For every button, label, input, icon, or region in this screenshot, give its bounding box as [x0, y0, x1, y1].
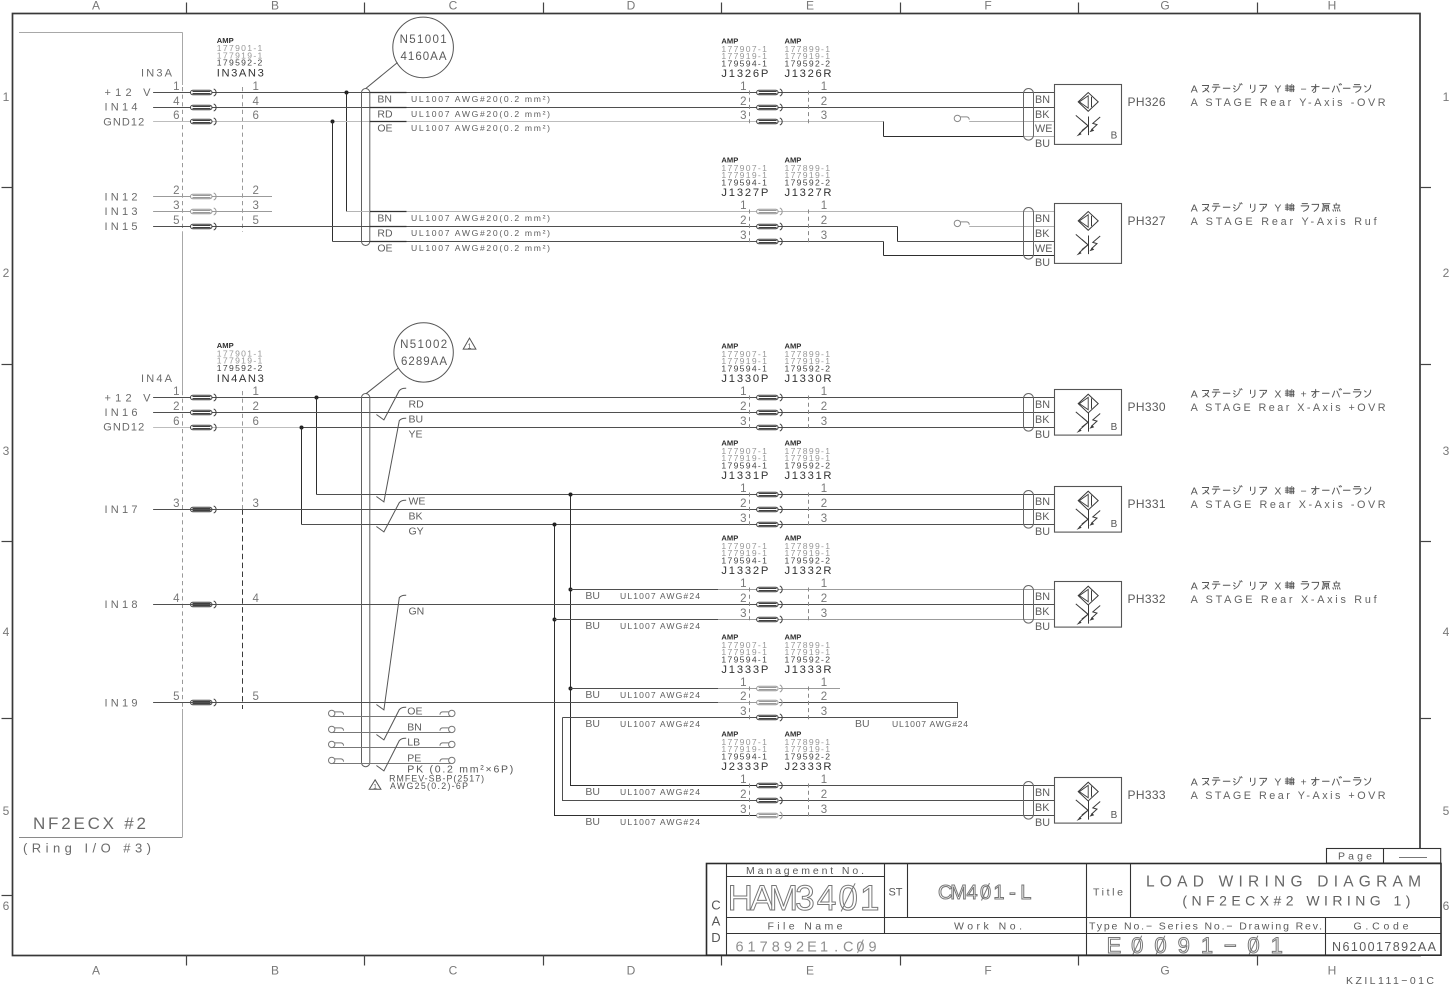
svg-text:179592-2: 179592-2 [785, 555, 831, 565]
svg-text:UL1007 AWG#20(0.2 mm²): UL1007 AWG#20(0.2 mm²) [411, 109, 550, 119]
svg-text:1: 1 [821, 774, 827, 786]
svg-text:BN: BN [1035, 591, 1050, 603]
wire IN16 row (J1330 pin2 BU) [153, 412, 1054, 414]
connector J1330 mating dashed lines [749, 396, 751, 430]
svg-text:UL1007 AWG#24: UL1007 AWG#24 [892, 719, 968, 729]
svg-text:RD: RD [377, 228, 393, 240]
balloon N51001 leader line [366, 63, 398, 89]
svg-text:UL1007 AWG#24: UL1007 AWG#24 [620, 817, 700, 827]
balloon N51002 6289AA [394, 323, 453, 382]
svg-text:RD: RD [409, 399, 425, 411]
svg-text:File Name: File Name [768, 921, 843, 933]
svg-text:E: E [1107, 933, 1122, 958]
svg-text:179592-2: 179592-2 [785, 654, 831, 664]
svg-text:PH331: PH331 [1128, 497, 1166, 511]
description (Japanese) [1191, 485, 1371, 497]
svg-text:3: 3 [821, 706, 827, 718]
svg-text:IN3A: IN3A [141, 68, 173, 80]
description (Japanese) [1191, 202, 1340, 214]
crimp IN4A pin1 [191, 394, 217, 401]
title block inner lines [726, 863, 728, 955]
svg-text:B: B [271, 0, 279, 13]
svg-text:Y: Y [1274, 202, 1281, 214]
svg-text:3: 3 [821, 608, 827, 620]
svg-text:1: 1 [1201, 933, 1213, 958]
wire J1333 pin1 row [571, 688, 719, 690]
svg-text:1: 1 [173, 386, 179, 398]
svg-text:BN: BN [1035, 399, 1050, 411]
svg-text:+: + [1301, 776, 1307, 788]
svg-text:1: 1 [740, 483, 746, 495]
svg-text:OE: OE [377, 123, 392, 135]
crimp J2333 pin2 [757, 797, 783, 804]
svg-text:WE: WE [1035, 243, 1052, 255]
svg-text:GND12: GND12 [103, 116, 144, 128]
svg-text:UL1007 AWG#20(0.2 mm²): UL1007 AWG#20(0.2 mm²) [411, 228, 550, 238]
svg-text:5: 5 [173, 215, 179, 227]
svg-text:J1332P: J1332P [721, 565, 768, 577]
svg-text:1: 1 [821, 386, 827, 398]
crimp J1326 pin2 [757, 104, 783, 111]
svg-text:6: 6 [1443, 899, 1450, 913]
management no. HAM3401 [728, 879, 880, 918]
cable N51002 sheath [362, 394, 370, 767]
svg-text:3: 3 [821, 110, 827, 122]
svg-text:2: 2 [173, 185, 179, 197]
svg-text:J1330R: J1330R [785, 373, 832, 385]
photo sensor PH326 receiver symbol [1088, 117, 1090, 136]
crimp J1326 pin1 [757, 89, 783, 96]
svg-text:NF2ECX #2: NF2ECX #2 [33, 814, 147, 833]
crimp IN3A pin6 [191, 118, 217, 125]
svg-text:UL1007 AWG#20(0.2 mm²): UL1007 AWG#20(0.2 mm²) [411, 123, 550, 133]
svg-text:1: 1 [740, 200, 746, 212]
svg-text:D: D [627, 0, 636, 13]
crimp J1330 pin1 [757, 394, 783, 401]
twisted pair marker GN/PK [376, 595, 406, 710]
revision triangle 1 (balloon) [463, 338, 476, 349]
crimp J1330 pin3 [757, 424, 783, 431]
svg-text:1: 1 [821, 200, 827, 212]
svg-text:3: 3 [253, 200, 259, 212]
svg-text:E: E [807, 940, 817, 956]
svg-text:1: 1 [373, 784, 377, 791]
svg-text:BU: BU [1035, 257, 1050, 269]
connector J1331 mating dashed lines [749, 493, 751, 527]
svg-text:2: 2 [740, 498, 746, 510]
connector J1327 mating dashed lines [749, 210, 751, 244]
svg-text:6: 6 [173, 110, 179, 122]
svg-text:BU: BU [585, 620, 600, 632]
svg-text:A: A [1191, 580, 1198, 592]
svg-text:Y: Y [1274, 83, 1281, 95]
svg-text:−: − [1301, 83, 1307, 95]
svg-text:X: X [1274, 485, 1281, 497]
svg-text:2: 2 [821, 691, 827, 703]
svg-text:BK: BK [1035, 228, 1050, 240]
svg-text:GY: GY [409, 526, 424, 538]
svg-text:H: H [1328, 0, 1337, 13]
svg-text:179594-1: 179594-1 [721, 363, 767, 373]
photo sensor PH330 body [1055, 390, 1122, 436]
svg-text:A: A [1191, 485, 1198, 497]
block boundary solid segments (left column) [182, 232, 184, 391]
svg-text:J1326P: J1326P [721, 68, 768, 80]
svg-text:BU: BU [585, 816, 600, 828]
svg-text:BN: BN [377, 213, 392, 225]
svg-text:IN4AN3: IN4AN3 [217, 373, 264, 385]
drawing number E0091-01 [1107, 933, 1283, 958]
junction +12V branch (mid) [315, 396, 319, 400]
connector column dashed line (left) [182, 87, 184, 232]
svg-text:A: A [1191, 388, 1198, 400]
crimp J1332 pin2 [757, 601, 783, 608]
svg-text:N51002: N51002 [400, 339, 447, 351]
wire J1333 pin2 loop-back jumper to pin3 [563, 703, 958, 718]
svg-text:Type No.− Series No.− Drawing: Type No.− Series No.− Drawing Rev. [1089, 921, 1322, 933]
svg-text:Y: Y [1274, 776, 1281, 788]
svg-text:1: 1 [1271, 933, 1283, 958]
svg-text:B: B [1111, 131, 1118, 142]
svg-text:BU: BU [1035, 817, 1050, 829]
svg-text:J1331R: J1331R [785, 470, 832, 482]
svg-text:179592-2: 179592-2 [785, 751, 831, 761]
svg-text:J2333P: J2333P [721, 761, 768, 773]
photo sensor PH331 emitter symbol [1078, 491, 1098, 510]
svg-text:WE: WE [1035, 123, 1052, 135]
wire label-zone dark segments (J1327 cable rows) [370, 211, 407, 213]
wire J2333 pin3 row to PH333 BU [779, 815, 1055, 817]
riser +12V to J1332/J1333/J2333 pin1 [571, 495, 757, 786]
work station CM401-L [938, 882, 1031, 904]
svg-text:AWG25(0.2)-6P: AWG25(0.2)-6P [390, 781, 468, 791]
svg-text:3: 3 [821, 513, 827, 525]
wire GND12 row (J1330 pin3 YE) [153, 427, 301, 429]
svg-text:3: 3 [740, 608, 746, 620]
riser GND to J1332/J2333 pin3 [555, 525, 757, 816]
svg-text:1: 1 [993, 882, 1004, 904]
wire J2333 pin1 row to PH333 BN [779, 785, 1055, 787]
svg-text:4: 4 [253, 96, 260, 108]
page number box [1327, 849, 1441, 864]
cut wire stub PH326 WE with coil [954, 115, 960, 121]
svg-text:BK: BK [1035, 414, 1050, 426]
svg-text:1: 1 [740, 81, 746, 93]
svg-text:IN4A: IN4A [141, 373, 173, 385]
photo sensor PH333 cable clamp [1024, 782, 1034, 820]
description (Japanese) [1191, 580, 1340, 592]
connector J1333 mating dashed lines [749, 687, 751, 720]
svg-text:H: H [728, 879, 753, 918]
svg-text:3: 3 [821, 804, 827, 816]
description (Japanese) [1191, 388, 1371, 400]
wire J1327 pin1 row (+12V branch) [347, 211, 1055, 213]
svg-text:X: X [1274, 388, 1281, 400]
svg-text:F: F [984, 0, 991, 13]
svg-text:1: 1 [253, 81, 259, 93]
svg-text:2: 2 [1443, 266, 1450, 280]
photo sensor PH330 emitter symbol [1078, 394, 1098, 413]
svg-text:179594-1: 179594-1 [721, 58, 767, 68]
crimp J2333 pin3 [757, 812, 783, 819]
wire step J1326 pin3 down to PH326 BU row [883, 122, 885, 137]
coiled spare wire BN [333, 732, 452, 734]
crimp IN3A pin4 [191, 104, 217, 111]
wire +12V row (IN3A pin1 to J1326 pin1 to PH326 BN) [153, 92, 1054, 94]
crimp IN18 pin4 [191, 601, 217, 608]
junction +12V branch [345, 91, 349, 95]
connector J1326 mating dashed lines [749, 91, 751, 124]
svg-text:J1332R: J1332R [785, 565, 832, 577]
svg-text:6289AA: 6289AA [401, 356, 447, 368]
svg-text:1: 1 [821, 578, 827, 590]
twisted pair marker LB/PE [376, 738, 406, 771]
svg-text:-: - [1009, 882, 1016, 904]
crimp IN13 pin3 [191, 208, 217, 215]
svg-text:3: 3 [740, 110, 746, 122]
svg-text:A STAGE Rear Y-Axis +OVR: A STAGE Rear Y-Axis +OVR [1191, 790, 1386, 802]
svg-text:4: 4 [3, 625, 10, 639]
svg-text:5: 5 [253, 215, 259, 227]
photo sensor PH327 cable clamp [1024, 208, 1034, 260]
cable N51001 sheath [362, 89, 370, 246]
photo sensor PH331 cable clamp [1024, 491, 1034, 529]
svg-text:1: 1 [3, 90, 10, 104]
svg-text:E: E [806, 964, 814, 978]
svg-text:6: 6 [735, 940, 743, 956]
wire J1327 pin3 row (GND12 branch) [333, 241, 884, 243]
svg-text:179592-2: 179592-2 [785, 460, 831, 470]
wire step J1327 pin2 down to PH327 WE row [897, 227, 899, 242]
svg-text:3: 3 [740, 706, 746, 718]
photo sensor PH326 cable clamp [1024, 89, 1034, 141]
wire J1332 pin1 row [571, 589, 719, 591]
svg-text:9: 9 [1178, 933, 1190, 958]
crimp J2333 pin1 [757, 782, 783, 789]
photo sensor PH331 body [1055, 487, 1122, 533]
wire IN15 row to J1327 pin2 [153, 226, 897, 228]
svg-text:M: M [950, 882, 967, 904]
photo sensor PH333 body [1055, 778, 1122, 824]
svg-text:BU: BU [1035, 621, 1050, 633]
crimp J1331 pin1 [757, 491, 783, 498]
photo sensor PH326 body [1055, 85, 1122, 145]
photo sensor PH333 receiver symbol [1088, 801, 1090, 820]
svg-text:3: 3 [3, 444, 10, 458]
crimp IN19 pin5 [191, 699, 217, 706]
photo sensor PH332 emitter symbol [1078, 586, 1098, 605]
svg-text:3: 3 [1443, 444, 1450, 458]
svg-text:1: 1 [253, 386, 259, 398]
svg-text:1: 1 [748, 940, 756, 956]
svg-text:1: 1 [1443, 90, 1450, 104]
svg-text:−: − [1301, 485, 1307, 497]
svg-text:D: D [711, 930, 720, 945]
svg-text:4: 4 [967, 882, 978, 904]
svg-text:N51001: N51001 [400, 34, 447, 46]
wire IN14 row (pin4 to J1326 pin2 to PH326 BK) [153, 107, 1054, 109]
crimp J1332 pin3 [757, 616, 783, 623]
svg-text:2: 2 [821, 593, 827, 605]
svg-text:2: 2 [796, 940, 804, 956]
svg-text:BK: BK [1035, 606, 1050, 618]
twisted pair marker OE/BN [376, 707, 406, 740]
svg-text:RD: RD [377, 109, 393, 121]
crimp J1327 pin2 [757, 223, 783, 230]
svg-text:BK: BK [1035, 109, 1050, 121]
svg-text:UL1007 AWG#24: UL1007 AWG#24 [620, 787, 700, 797]
svg-text:OE: OE [377, 243, 392, 255]
svg-text:179592-2: 179592-2 [217, 363, 263, 373]
svg-text:4: 4 [173, 593, 180, 605]
crimp J1333 pin3 [757, 714, 783, 721]
crimp IN4A pin6 [191, 424, 217, 431]
svg-text:LOAD WIRING DIAGRAM: LOAD WIRING DIAGRAM [1146, 874, 1421, 891]
svg-text:BN: BN [1035, 94, 1050, 106]
wire J1331 pin1 row (+12V WE) [317, 494, 1055, 496]
svg-text:BN: BN [1035, 496, 1050, 508]
svg-text:L: L [1020, 882, 1031, 904]
svg-text:BK: BK [409, 511, 423, 523]
crimp J1333 pin1 [757, 685, 783, 692]
svg-text:UL1007 AWG#20(0.2 mm²): UL1007 AWG#20(0.2 mm²) [411, 243, 550, 253]
svg-text:2: 2 [821, 401, 827, 413]
svg-text:1: 1 [173, 81, 179, 93]
photo sensor PH330 cable clamp [1024, 394, 1034, 432]
svg-text:2: 2 [821, 789, 827, 801]
svg-text:1: 1 [821, 677, 827, 689]
svg-text:Title: Title [1093, 887, 1123, 899]
svg-text:C: C [449, 0, 458, 13]
wire IN13 stub [153, 211, 272, 213]
svg-text:UL1007 AWG#24: UL1007 AWG#24 [620, 591, 700, 601]
balloon N51002 leader line [366, 368, 399, 394]
description (Japanese) [1191, 83, 1371, 95]
svg-text:J1326R: J1326R [785, 68, 832, 80]
svg-text:3: 3 [795, 879, 814, 918]
photo sensor PH333 emitter symbol [1078, 782, 1098, 801]
svg-text:7: 7 [760, 940, 768, 956]
svg-text:2: 2 [740, 215, 746, 227]
svg-text:1: 1 [740, 386, 746, 398]
svg-text:BU: BU [585, 786, 600, 798]
svg-text:6: 6 [253, 416, 259, 428]
svg-text:A STAGE Rear X-Axis +OVR: A STAGE Rear X-Axis +OVR [1191, 402, 1386, 414]
photo sensor PH330 receiver symbol [1088, 413, 1090, 432]
photo sensor PH326 emitter symbol [1078, 93, 1098, 112]
crimp J1330 pin2 [757, 409, 783, 416]
svg-text:UL1007 AWG#24: UL1007 AWG#24 [620, 621, 700, 631]
svg-text:2: 2 [740, 401, 746, 413]
svg-text:A STAGE Rear X-Axis Ruf: A STAGE Rear X-Axis Ruf [1191, 594, 1378, 606]
crimp J1333 pin2 [757, 699, 783, 706]
svg-text:2: 2 [253, 401, 259, 413]
wire IN12 stub [153, 196, 272, 198]
photo sensor PH327 emitter symbol [1078, 212, 1098, 231]
svg-text:B: B [1111, 519, 1118, 530]
svg-text:5: 5 [3, 804, 10, 818]
photo sensor PH332 body [1055, 582, 1122, 628]
twisted pair marker YE/WE [376, 418, 406, 502]
svg-text:BU: BU [585, 718, 600, 730]
svg-text:BN: BN [377, 94, 392, 106]
photo sensor PH331 receiver symbol [1088, 510, 1090, 529]
balloon N51001 4160AA [393, 17, 454, 78]
crimp IN15 pin5 [191, 223, 217, 230]
svg-text:179592-2: 179592-2 [785, 177, 831, 187]
svg-text:J1331P: J1331P [721, 470, 768, 482]
svg-text:A: A [1191, 776, 1198, 788]
svg-text:6: 6 [173, 416, 179, 428]
svg-text:1: 1 [860, 879, 879, 918]
svg-text:J1330P: J1330P [721, 373, 768, 385]
svg-text:2: 2 [740, 593, 746, 605]
connector J2333 mating dashed lines [749, 784, 751, 818]
svg-text:1: 1 [821, 81, 827, 93]
coiled spare wire LB [333, 747, 452, 749]
wire J2333 pin2 row to PH333 BK [779, 800, 1055, 802]
svg-text:3: 3 [740, 416, 746, 428]
svg-text:G: G [1160, 964, 1169, 978]
svg-text:179594-1: 179594-1 [721, 555, 767, 565]
svg-text:IN3AN3: IN3AN3 [217, 68, 264, 80]
svg-text:C: C [449, 964, 458, 978]
svg-text:A STAGE Rear Y-Axis Ruf: A STAGE Rear Y-Axis Ruf [1191, 216, 1378, 228]
connector J1332 mating dashed lines [749, 588, 751, 622]
photo sensor PH332 receiver symbol [1088, 605, 1090, 624]
svg-text:5: 5 [253, 691, 259, 703]
svg-text:J1327R: J1327R [785, 187, 832, 199]
svg-text:179594-1: 179594-1 [721, 654, 767, 664]
connector column dashed line (right) [242, 87, 244, 232]
svg-text:B: B [1111, 422, 1118, 433]
crimp J1326 pin3 [757, 118, 783, 125]
crimp IN17 pin3 [191, 506, 217, 513]
crimp IN4A pin2 [191, 409, 217, 416]
svg-text:1: 1 [740, 677, 746, 689]
svg-text:1: 1 [468, 343, 472, 350]
svg-text:BU: BU [855, 718, 870, 730]
junction GND12 branch [331, 120, 335, 124]
svg-text:1: 1 [740, 578, 746, 590]
svg-text:.: . [834, 940, 838, 956]
svg-text:A: A [1191, 83, 1198, 95]
wire label-zone dark segments (J1326 cable rows) [370, 92, 407, 94]
svg-text:G: G [1160, 0, 1169, 13]
description (Japanese) [1191, 776, 1371, 788]
svg-text:2: 2 [821, 215, 827, 227]
svg-text:PH327: PH327 [1128, 214, 1166, 228]
svg-text:A: A [712, 914, 721, 929]
svg-text:BN: BN [1035, 787, 1050, 799]
junction GND12 branch (mid) [300, 426, 304, 430]
svg-text:BU: BU [1035, 526, 1050, 538]
svg-text:3: 3 [173, 200, 179, 212]
svg-text:2: 2 [3, 266, 10, 280]
svg-text:3: 3 [740, 513, 746, 525]
svg-text:A: A [92, 0, 100, 13]
twisted pair marker BK/GY [376, 500, 406, 532]
svg-text:A STAGE Rear Y-Axis -OVR: A STAGE Rear Y-Axis -OVR [1191, 97, 1386, 109]
svg-text:179594-1: 179594-1 [721, 751, 767, 761]
svg-text:2: 2 [253, 185, 259, 197]
svg-text:UL1007 AWG#24: UL1007 AWG#24 [620, 719, 700, 729]
svg-text:5: 5 [173, 691, 179, 703]
svg-text:GND12: GND12 [103, 422, 144, 434]
crimp J1327 pin3 [757, 238, 783, 245]
wire J1332 pin3 row [555, 619, 719, 621]
svg-text:1: 1 [740, 774, 746, 786]
